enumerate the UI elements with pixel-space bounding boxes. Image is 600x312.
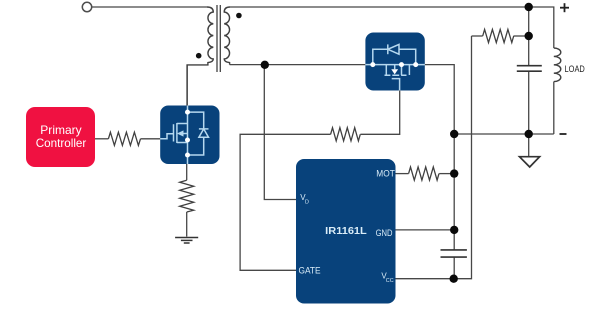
svg-text:LOAD: LOAD xyxy=(565,64,586,74)
svg-text:GND: GND xyxy=(376,228,393,238)
svg-text:Controller: Controller xyxy=(36,136,87,150)
svg-text:GATE: GATE xyxy=(299,266,321,276)
svg-text:MOT: MOT xyxy=(376,169,395,179)
svg-text:CC: CC xyxy=(386,278,394,284)
svg-text:D: D xyxy=(305,200,309,206)
svg-text:Primary: Primary xyxy=(40,123,81,137)
svg-text:IR1161L: IR1161L xyxy=(325,226,367,237)
